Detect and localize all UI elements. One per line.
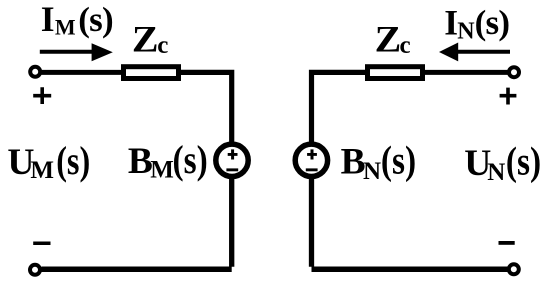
svg-text:M: M (55, 14, 76, 39)
svg-text:c: c (157, 32, 168, 59)
svg-text:Z: Z (132, 20, 159, 60)
svg-text:(s): (s) (78, 0, 113, 39)
svg-text:(s): (s) (173, 138, 208, 183)
svg-text:M: M (150, 156, 174, 183)
svg-text:c: c (400, 32, 411, 59)
svg-text:B: B (128, 141, 153, 182)
svg-text:Z: Z (375, 20, 402, 60)
svg-text:I: I (41, 0, 55, 39)
svg-text:(s): (s) (475, 3, 510, 42)
svg-text:B: B (341, 141, 366, 182)
svg-text:(s): (s) (381, 138, 416, 183)
svg-text:N: N (363, 158, 381, 185)
svg-text:M: M (30, 157, 54, 184)
svg-text:(s): (s) (56, 138, 90, 183)
svg-text:(s): (s) (506, 140, 541, 185)
svg-text:I: I (444, 3, 458, 43)
svg-text:N: N (457, 19, 475, 45)
svg-text:N: N (487, 159, 505, 186)
